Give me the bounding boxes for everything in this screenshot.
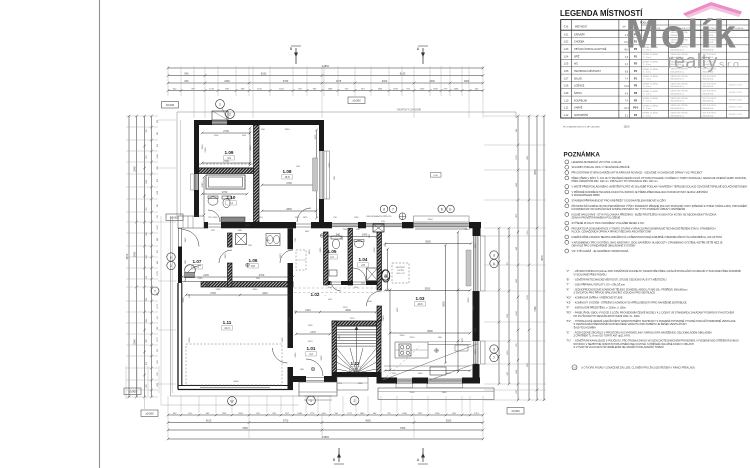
svg-text:1675: 1675 — [336, 80, 342, 83]
room label 1.06 — [248, 258, 259, 268]
svg-text:TL. 10mm: TL. 10mm — [643, 57, 652, 59]
svg-text:U OTVORŮ FASÁDY OZNAČENÉ ŽALUZ: U OTVORŮ FASÁDY OZNAČENÉ ŽALUZIE, CLONĚN… — [581, 366, 695, 369]
svg-text:1.12: 1.12 — [351, 361, 360, 366]
eaves walkway line — [161, 109, 516, 406]
svg-text:SÁDROVÁ OMÍTKA: SÁDROVÁ OMÍTKA — [671, 90, 689, 93]
legend table rows — [564, 31, 742, 117]
wall main top right section — [324, 216, 481, 230]
svg-text:1470: 1470 — [308, 341, 314, 343]
wall 1.01 bottom — [293, 376, 337, 382]
svg-text:3340: 3340 — [133, 339, 136, 345]
svg-text:Ø: Ø — [384, 275, 387, 279]
watermark roof logo — [683, 2, 742, 18]
section ellipse symbol 1.03 left — [382, 270, 390, 282]
svg-text:2,8: 2,8 — [361, 263, 365, 267]
svg-text:1.06: 1.06 — [564, 70, 569, 73]
svg-text:2845: 2845 — [286, 208, 292, 211]
svg-text:SDK PODHLED: SDK PODHLED — [703, 105, 717, 107]
wall 1.03 bottom with windows — [381, 378, 480, 384]
toilet 1.05 — [331, 236, 341, 249]
grid bubbles top wall mid a — [438, 205, 446, 213]
svg-text:SPÍŽ: SPÍŽ — [574, 55, 580, 58]
svg-text:1: 1 — [219, 102, 221, 106]
wall garage right 1.11-1.01 — [288, 287, 294, 390]
interior dim 1.03 horizontal — [390, 332, 470, 334]
grid bubbles top wall right b — [389, 205, 397, 213]
svg-text:PLOCHA MÍSTNOSTÍ 1.NP CELKEM: PLOCHA MÍSTNOSTÍ 1.NP CELKEM — [563, 125, 600, 128]
right dimension chain 1 — [543, 116, 545, 400]
svg-text:22,3: 22,3 — [624, 108, 629, 110]
sill boxes below 1.03 bottom windows — [396, 384, 463, 388]
door arc side entrance 1.07 — [182, 230, 199, 247]
svg-text:1375: 1375 — [295, 217, 301, 219]
witness lines right — [484, 116, 546, 400]
svg-text:1500: 1500 — [202, 144, 204, 150]
svg-text:3530: 3530 — [250, 145, 252, 151]
svg-text:NÁSTĚNNÝ: NÁSTĚNNÝ — [396, 266, 406, 269]
svg-text:3200: 3200 — [183, 297, 185, 303]
bottom dimension chain 2 — [168, 422, 483, 424]
svg-text:MALBA BÍLÁ: MALBA BÍLÁ — [703, 78, 715, 81]
terrace outline — [378, 388, 494, 400]
chimney block above top wall — [212, 111, 228, 120]
wall divider 1.09-1.08 vertical — [254, 125, 260, 222]
svg-text:1.09: 1.09 — [564, 92, 569, 95]
svg-text:KERAM. DLAŽBA: KERAM. DLAŽBA — [643, 61, 659, 64]
svg-text:2500: 2500 — [428, 219, 434, 221]
grid bubbles left wall pair — [167, 253, 175, 270]
interior dim 1.03 vertical right — [445, 245, 447, 363]
svg-text:2990: 2990 — [289, 317, 291, 323]
stairs walk line with arrow — [355, 326, 359, 371]
top dimension chain overall — [168, 67, 483, 69]
svg-text:MALBA BÍLÁ 2x: MALBA BÍLÁ 2x — [671, 107, 685, 110]
wall garage bottom double contour — [178, 386, 293, 390]
svg-text:2145: 2145 — [198, 278, 204, 280]
svg-text:2600: 2600 — [400, 335, 406, 337]
svg-text:3700: 3700 — [283, 420, 289, 423]
svg-text:1.05: 1.05 — [564, 63, 569, 66]
shelf line 1.09 — [199, 163, 253, 165]
svg-text:1.05: 1.05 — [328, 249, 337, 254]
svg-text:KERAM. DLAŽBA: KERAM. DLAŽBA — [643, 97, 659, 100]
svg-text:KOUPELNA: KOUPELNA — [574, 99, 587, 102]
svg-text:SDK PODHLED: SDK PODHLED — [703, 98, 717, 100]
svg-text:1: 1 — [310, 399, 312, 403]
svg-text:Molík: Molík — [626, 12, 738, 56]
svg-text:ZÁDVEŘÍ: ZÁDVEŘÍ — [574, 33, 585, 36]
svg-text:MALBA BÍLÁ: MALBA BÍLÁ — [703, 85, 715, 88]
legend table header text — [564, 22, 744, 30]
svg-text:MALBA BÍLÁ 2x: MALBA BÍLÁ 2x — [671, 78, 685, 81]
garage car dashed rectangle — [186, 344, 282, 385]
svg-text:3105: 3105 — [282, 337, 284, 343]
grid bubble 2 top — [226, 110, 235, 119]
wall main right with windows — [473, 222, 486, 384]
grid bubble bottom 1 — [307, 396, 316, 405]
level label alcove — [166, 214, 183, 221]
left dimension chain 3 — [144, 116, 146, 397]
svg-text:"KD": "KD" — [566, 296, 571, 300]
svg-text:1.03: 1.03 — [564, 48, 569, 51]
interior dim 1.03 vertical — [389, 290, 391, 370]
svg-text:2250: 2250 — [475, 327, 477, 333]
notes bullet list — [565, 159, 747, 253]
svg-text:3745: 3745 — [286, 182, 292, 185]
svg-text:KERAM. DLAŽBA: KERAM. DLAŽBA — [643, 90, 659, 93]
right dimension chain 5 — [498, 228, 500, 384]
stairwell top wall hatched — [332, 321, 381, 326]
svg-text:e: e — [170, 255, 172, 259]
interior dim 1.03 top — [385, 243, 471, 245]
grid bubble left mid — [151, 287, 159, 295]
svg-text:2980: 2980 — [442, 392, 448, 394]
svg-text:2745: 2745 — [216, 289, 222, 291]
radiator 1.10 — [221, 217, 245, 222]
svg-text:1.02: 1.02 — [311, 292, 320, 297]
legend table grid — [561, 20, 749, 118]
svg-text:940: 940 — [336, 234, 341, 237]
svg-text:SÁDROVÁ OMÍTKA: SÁDROVÁ OMÍTKA — [671, 82, 689, 85]
svg-text:1000: 1000 — [475, 349, 477, 355]
svg-text:SDK PODHLED: SDK PODHLED — [703, 91, 717, 93]
svg-text:±0,000: ±0,000 — [145, 412, 154, 416]
witness lines left — [126, 116, 176, 397]
grid bubble bottom 2 — [350, 396, 359, 405]
sheet fold line left — [99, 0, 101, 468]
entrance porch — [299, 382, 337, 400]
svg-text:SCHODIŠTĚ: SCHODIŠTĚ — [574, 114, 588, 117]
svg-text:3780: 3780 — [283, 80, 289, 83]
svg-text:1.04: 1.04 — [359, 257, 368, 262]
svg-text:2: 2 — [229, 112, 231, 116]
svg-text:SDK PODHLED: SDK PODHLED — [703, 113, 717, 115]
svg-text:ŠATNA: ŠATNA — [574, 92, 582, 95]
svg-text:15,8: 15,8 — [284, 175, 290, 179]
wall upper block right with window — [319, 120, 330, 225]
svg-text:2160: 2160 — [205, 147, 207, 153]
grid bubbles right wall lower pair — [490, 345, 498, 362]
right dimension chain 3 — [517, 116, 519, 400]
svg-text:4,9: 4,9 — [227, 156, 231, 160]
svg-text:OBKLAD V.2000: OBKLAD V.2000 — [729, 84, 742, 87]
svg-text:3670: 3670 — [255, 145, 257, 151]
door arc room 1.10 — [208, 210, 220, 222]
svg-text:JEDN. VZT: JEDN. VZT — [396, 273, 405, 275]
interior dim 1.03 mid — [385, 289, 470, 291]
wall divider 1.06 right — [288, 228, 294, 287]
wall 1.04 right long hatched — [377, 232, 382, 321]
section symbol circle right of 1.04 — [381, 270, 389, 280]
svg-text:REKUPERAČNÍ PŘÍVOD: REKUPERAČNÍ PŘÍVOD — [367, 215, 392, 218]
svg-text:9670: 9670 — [541, 255, 544, 261]
svg-text:2: 2 — [354, 399, 356, 403]
counter along bottom wall 1.03 — [384, 365, 470, 367]
stairwell right wall hatched — [377, 321, 382, 372]
svg-text:4410: 4410 — [262, 292, 268, 295]
svg-text:2700: 2700 — [259, 274, 265, 277]
svg-text:S DODAVATELEM KRBU: S DODAVATELEM KRBU — [572, 193, 601, 197]
svg-text:2080: 2080 — [202, 182, 204, 188]
svg-text:1090: 1090 — [362, 234, 368, 237]
door arc 1.06 to corridor — [280, 250, 293, 263]
room label 1.12 — [350, 361, 361, 371]
svg-text:3340: 3340 — [133, 166, 136, 172]
watermark text Molik — [626, 12, 742, 73]
svg-text:OBÝVACÍ POKOJ+KUCHYNĚ: OBÝVACÍ POKOJ+KUCHYNĚ — [574, 48, 607, 51]
svg-text:SÁDROVÁ OMÍTKA: SÁDROVÁ OMÍTKA — [671, 104, 689, 107]
svg-text:4050: 4050 — [468, 297, 470, 303]
svg-text:3900: 3900 — [534, 169, 537, 175]
svg-text:4650: 4650 — [365, 420, 371, 423]
svg-text:POZNÁMKA: POZNÁMKA — [564, 150, 601, 159]
interior dim 1.09 — [202, 162, 250, 164]
svg-text:SÁDROVÁ OMÍTKA: SÁDROVÁ OMÍTKA — [671, 112, 689, 115]
top dimension chain 2 — [168, 75, 483, 77]
room label 1.09 — [224, 150, 235, 160]
section marker B top — [290, 46, 301, 64]
svg-text:7: 7 — [493, 356, 495, 360]
interior dim 1.10 — [202, 193, 247, 195]
svg-text:3500: 3500 — [446, 420, 452, 423]
svg-text:14850: 14850 — [322, 436, 330, 439]
room label 1.07 — [192, 259, 203, 269]
svg-text:TL. 10mm: TL. 10mm — [643, 79, 652, 81]
svg-text:1.10: 1.10 — [227, 195, 236, 200]
svg-text:TL. 10mm: TL. 10mm — [643, 101, 652, 103]
svg-text:2700: 2700 — [223, 160, 229, 163]
right dimension chain 2 — [528, 116, 530, 400]
svg-text:2455: 2455 — [320, 247, 322, 253]
interior dim corridor — [296, 311, 376, 313]
room label 1.05 — [327, 249, 338, 259]
side entry alcove with steps — [178, 216, 204, 228]
svg-text:5630: 5630 — [189, 337, 191, 343]
boiler 1.07 — [185, 265, 196, 278]
svg-text:1.01: 1.01 — [307, 346, 316, 351]
svg-text:6: 6 — [493, 262, 495, 266]
kitchen counter right — [428, 342, 471, 352]
stairwell bottom wall — [332, 372, 382, 377]
svg-text:KERAM. DLAŽBA: KERAM. DLAŽBA — [643, 68, 659, 71]
left dimension chain 2 — [136, 116, 138, 397]
grid bubble 1 leader — [222, 108, 227, 119]
svg-text:s.r.o.: s.r.o. — [719, 58, 742, 70]
svg-text:8030: 8030 — [234, 381, 240, 383]
svg-text:±0,000: ±0,000 — [166, 103, 175, 107]
washbasin 1.04 — [354, 240, 364, 248]
svg-text:2950: 2950 — [258, 217, 264, 219]
svg-text:1.03: 1.03 — [416, 296, 425, 301]
svg-text:MALBA BÍLÁ 2x: MALBA BÍLÁ 2x — [671, 100, 685, 103]
top dimension chain 4 — [168, 90, 483, 92]
kitchen island 1.03 — [395, 342, 428, 358]
svg-text:MALBA BÍLÁ: MALBA BÍLÁ — [703, 107, 715, 110]
svg-text:1.07: 1.07 — [193, 259, 202, 264]
bottom dimension chain overall — [168, 438, 483, 440]
interior dim garage width — [186, 294, 290, 296]
svg-text:OBKLAD V.2000: OBKLAD V.2000 — [729, 106, 742, 109]
interior dim 1.08 low — [262, 210, 316, 212]
svg-text:2950: 2950 — [285, 129, 291, 131]
wall upper block top — [194, 120, 324, 125]
svg-text:WC: WC — [574, 63, 578, 66]
grid bubble bottom W — [228, 397, 237, 406]
left chain witness to level box — [144, 397, 146, 409]
svg-text:14850: 14850 — [322, 65, 330, 68]
svg-text:2425: 2425 — [225, 253, 227, 259]
svg-text:5,3: 5,3 — [353, 367, 357, 371]
svg-text:4410: 4410 — [253, 289, 259, 291]
svg-text:VNITŘNÍ: VNITŘNÍ — [397, 269, 404, 272]
svg-text:SKLAD: SKLAD — [574, 77, 582, 80]
room label 1.04 — [358, 257, 369, 267]
svg-text:1125: 1125 — [354, 217, 359, 219]
svg-text:1470: 1470 — [310, 331, 316, 334]
svg-text:1.11: 1.11 — [223, 320, 232, 325]
svg-text:b: b — [450, 207, 452, 211]
grid bubbles right wall upper pair — [490, 251, 498, 268]
svg-text:"TU": "TU" — [566, 339, 571, 343]
svg-text:1: 1 — [170, 264, 172, 268]
svg-text:2210: 2210 — [410, 337, 416, 339]
wall garage top hatched — [182, 282, 293, 288]
door arc 1.05 — [331, 281, 341, 291]
svg-text:5550: 5550 — [425, 287, 431, 290]
svg-text:±0,000: ±0,000 — [352, 99, 361, 103]
room label 1.01 — [306, 346, 317, 356]
radiator strip 1.08 near window — [313, 158, 318, 191]
svg-text:1500: 1500 — [245, 225, 251, 227]
svg-text:2,2: 2,2 — [330, 255, 334, 259]
svg-text:940: 940 — [184, 80, 189, 83]
room label 1.10 — [226, 195, 237, 205]
level label bottom-right — [507, 408, 524, 415]
shower 1.04 with X — [367, 268, 378, 281]
room label 1.02 — [311, 292, 327, 297]
svg-text:4050: 4050 — [473, 305, 475, 311]
svg-text:"V": "V" — [566, 269, 570, 273]
section marker A top — [417, 46, 428, 64]
svg-text:1500: 1500 — [213, 217, 219, 219]
svg-text:±0,000: ±0,000 — [128, 390, 137, 394]
notes final bullet — [572, 365, 695, 370]
svg-text:1210: 1210 — [305, 309, 311, 312]
grid bubble 1 top — [216, 100, 225, 109]
wall divider 1.07-1.06 hatched — [228, 233, 233, 287]
svg-text:"B": "B" — [566, 277, 570, 281]
svg-text:1.12: 1.12 — [564, 114, 569, 117]
section marker B bottom — [333, 448, 344, 464]
svg-text:15,8: 15,8 — [624, 86, 629, 88]
svg-text:4100: 4100 — [206, 420, 212, 423]
door arc corridor to 1.03 — [367, 291, 382, 306]
interior dim 1.08 — [262, 184, 316, 186]
svg-text:7800: 7800 — [242, 427, 248, 430]
svg-text:TECHNICKÁ MÍSTNOST: TECHNICKÁ MÍSTNOST — [574, 70, 601, 73]
svg-text:2500: 2500 — [465, 229, 471, 231]
svg-text:KERAM. DLAŽBA: KERAM. DLAŽBA — [643, 75, 659, 78]
top dimension chain 3 — [168, 82, 483, 84]
svg-text:8130: 8130 — [400, 73, 406, 76]
level label top-right — [348, 97, 365, 104]
svg-text:SDK PODHLED: SDK PODHLED — [703, 83, 717, 85]
svg-text:OBKLAD V.2000: OBKLAD V.2000 — [729, 98, 742, 101]
svg-text:TL. 10mm: TL. 10mm — [643, 71, 652, 73]
svg-text:1245: 1245 — [308, 325, 314, 327]
door arc garage to 1.01 — [273, 348, 288, 363]
svg-text:1.09: 1.09 — [225, 150, 234, 155]
legend table caption — [563, 125, 630, 128]
svg-text:1415: 1415 — [185, 237, 187, 243]
svg-text:4630: 4630 — [345, 309, 351, 312]
level label top-left — [162, 102, 179, 109]
svg-text:KERAM. DLAŽBA: KERAM. DLAŽBA — [643, 104, 659, 107]
svg-text:TL. 10mm: TL. 10mm — [643, 64, 652, 66]
svg-text:1060: 1060 — [358, 383, 364, 385]
svg-text:±0,000: ±0,000 — [511, 409, 520, 413]
exterior step below stairwell — [337, 377, 368, 390]
svg-text:KERAM. DLAŽBA: KERAM. DLAŽBA — [643, 112, 659, 115]
wall garage left double contour — [178, 283, 182, 390]
wall below 1.05 1.04 — [328, 281, 377, 285]
kitchen sink — [430, 367, 446, 375]
svg-text:MALBA BÍLÁ 2x: MALBA BÍLÁ 2x — [671, 92, 685, 95]
wall divider 1.09-1.10 horizontal — [199, 168, 254, 174]
svg-text:MALBA BÍLÁ 2x: MALBA BÍLÁ 2x — [671, 85, 685, 88]
grid bubbles top wall mid b — [447, 205, 455, 213]
washbasin 1.10 — [208, 196, 218, 205]
svg-text:4,2: 4,2 — [309, 352, 313, 356]
notes quoted letter list — [566, 268, 741, 349]
svg-text:6030: 6030 — [261, 73, 267, 76]
svg-text:7050: 7050 — [400, 427, 406, 430]
grid bubbles top wall right a — [380, 205, 388, 213]
svg-text:"T": "T" — [566, 282, 569, 286]
svg-text:2145: 2145 — [203, 274, 209, 277]
svg-text:2250: 2250 — [224, 80, 230, 83]
svg-text:f: f — [155, 289, 156, 293]
svg-text:"PD": "PD" — [566, 311, 571, 315]
svg-text:150,9: 150,9 — [624, 126, 630, 128]
stairwell corner to 1.03 bottom — [377, 372, 382, 384]
svg-text:→: → — [324, 293, 327, 297]
bottom dimension chain 3 — [168, 429, 483, 431]
svg-text:"KV": "KV" — [566, 319, 571, 323]
svg-text:SÁDROVÁ OMÍTKA: SÁDROVÁ OMÍTKA — [671, 97, 689, 100]
svg-text:Č.M: Č.M — [564, 25, 568, 28]
svg-text:2100: 2100 — [374, 247, 376, 253]
svg-text:5800: 5800 — [383, 315, 385, 321]
svg-text:KERAM. DLAŽBA: KERAM. DLAŽBA — [643, 82, 659, 85]
svg-text:d: d — [493, 347, 495, 351]
svg-text:1250: 1250 — [214, 135, 220, 137]
door arc garage to 1.07 — [185, 266, 201, 282]
svg-text:3000: 3000 — [382, 80, 388, 83]
svg-text:MÍSTNOST: MÍSTNOST — [575, 25, 588, 28]
svg-text:P14: P14 — [633, 107, 638, 110]
svg-text:1.07: 1.07 — [564, 77, 569, 80]
svg-text:"S": "S" — [566, 330, 570, 334]
svg-text:5855: 5855 — [442, 301, 445, 307]
right dimension chain 4 — [508, 228, 510, 384]
svg-text:1.08: 1.08 — [564, 85, 569, 88]
svg-text:TL. 10mm: TL. 10mm — [643, 86, 652, 88]
svg-text:1.04: 1.04 — [564, 55, 569, 58]
wall 1.05 left hatched — [324, 232, 329, 285]
svg-text:2415: 2415 — [295, 352, 297, 358]
wall upper block left — [191, 120, 200, 217]
